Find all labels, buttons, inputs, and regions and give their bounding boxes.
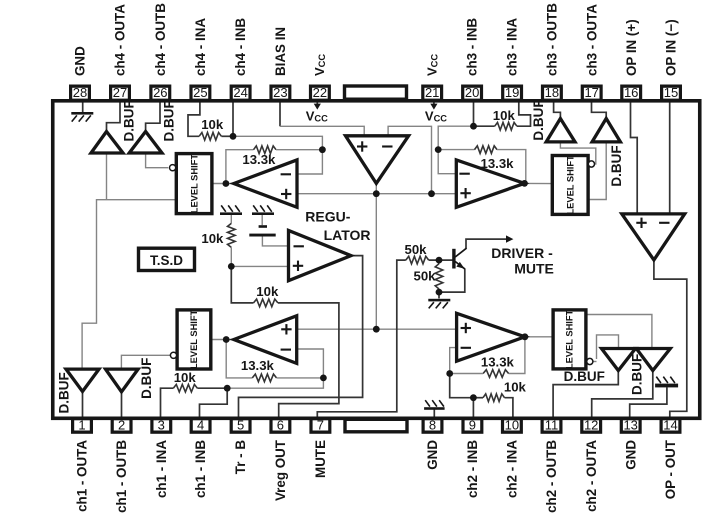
svg-text:OP - OUT: OP - OUT [663,439,678,499]
svg-text:3: 3 [158,417,165,432]
svg-text:7: 7 [317,417,324,432]
svg-text:17: 17 [584,85,598,100]
svg-text:26: 26 [153,85,167,100]
svg-text:ch4 - INB: ch4 - INB [233,18,248,76]
svg-text:GND: GND [425,440,440,470]
svg-text:10k: 10k [504,380,527,395]
svg-text:LATOR: LATOR [324,227,371,243]
svg-text:6: 6 [277,417,284,432]
svg-text:10: 10 [505,417,519,432]
svg-text:23: 23 [273,85,287,100]
svg-text:10k: 10k [493,108,516,123]
svg-text:24: 24 [233,85,247,100]
svg-text:9: 9 [469,417,476,432]
svg-text:D.BUF: D.BUF [122,100,137,141]
svg-text:D.BUF: D.BUF [609,145,624,186]
svg-text:10k: 10k [201,231,224,246]
svg-text:50k: 50k [404,242,427,257]
svg-text:MUTE: MUTE [514,260,554,276]
svg-text:4: 4 [197,417,204,432]
svg-text:13.3k: 13.3k [242,152,276,167]
svg-text:REGU-: REGU- [305,209,350,225]
svg-text:D.BUF: D.BUF [57,372,72,413]
svg-text:ch4 - OUTA: ch4 - OUTA [113,4,128,76]
svg-text:5: 5 [237,417,244,432]
svg-text:LEVEL SHIFT: LEVEL SHIFT [565,155,575,215]
svg-text:D.BUF: D.BUF [630,354,645,395]
svg-text:T.S.D: T.S.D [150,253,183,268]
svg-text:21: 21 [425,85,439,100]
svg-text:13.3k: 13.3k [480,156,514,171]
svg-text:19: 19 [505,85,519,100]
svg-text:D.BUF: D.BUF [531,99,546,140]
svg-text:10k: 10k [201,117,224,132]
svg-text:15: 15 [664,85,678,100]
svg-text:13: 13 [623,417,637,432]
svg-text:25: 25 [193,85,207,100]
svg-text:LEVEL SHIFT: LEVEL SHIFT [189,154,199,214]
svg-text:20: 20 [465,85,479,100]
svg-text:2: 2 [118,417,125,432]
svg-text:1: 1 [78,417,85,432]
svg-text:GND: GND [73,46,88,76]
svg-text:ch3 - INA: ch3 - INA [505,18,520,76]
svg-text:10k: 10k [174,370,197,385]
svg-text:DRIVER -: DRIVER - [491,245,553,261]
svg-text:LEVEL SHIFT: LEVEL SHIFT [565,309,575,369]
svg-text:16: 16 [624,85,638,100]
svg-text:12: 12 [584,417,598,432]
svg-text:ch4 - INA: ch4 - INA [193,18,208,76]
svg-text:14: 14 [663,417,677,432]
svg-text:ch1 - OUTB: ch1 - OUTB [114,440,129,513]
svg-text:13.3k: 13.3k [241,358,275,373]
svg-text:D.BUF: D.BUF [162,100,177,141]
svg-text:ch2 - OUTA: ch2 - OUTA [584,440,599,512]
svg-text:18: 18 [545,85,559,100]
svg-text:ch3 - INB: ch3 - INB [465,18,480,76]
svg-text:50k: 50k [413,268,436,283]
svg-text:LEVEL SHIFT: LEVEL SHIFT [189,309,199,369]
svg-text:11: 11 [545,417,559,432]
svg-text:28: 28 [73,85,87,100]
svg-text:ch1 - INA: ch1 - INA [154,440,169,498]
svg-text:OP IN (−): OP IN (−) [664,19,679,76]
svg-text:ch3 - OUTB: ch3 - OUTB [545,3,560,76]
svg-text:ch1 - INB: ch1 - INB [193,440,208,498]
svg-text:GND: GND [623,440,638,470]
svg-text:ch2 - INA: ch2 - INA [505,440,520,498]
svg-text:MUTE: MUTE [313,440,328,478]
svg-text:ch4 - OUTB: ch4 - OUTB [153,3,168,76]
svg-text:D.BUF: D.BUF [564,369,605,384]
svg-text:10k: 10k [256,284,279,299]
svg-text:Vreg OUT: Vreg OUT [273,439,288,501]
svg-text:OP IN (+): OP IN (+) [624,19,639,76]
svg-text:Tr - B: Tr - B [233,440,248,475]
svg-text:22: 22 [313,85,327,100]
svg-text:BIAS IN: BIAS IN [273,27,288,76]
svg-text:ch3 - OUTA: ch3 - OUTA [584,4,599,76]
svg-text:D.BUF: D.BUF [139,358,154,399]
svg-text:ch2 - INB: ch2 - INB [465,440,480,498]
svg-text:27: 27 [113,85,127,100]
svg-text:ch1 - OUTA: ch1 - OUTA [75,440,90,512]
svg-text:ch2 - OUTB: ch2 - OUTB [544,440,559,513]
svg-text:13.3k: 13.3k [481,354,515,369]
svg-text:8: 8 [429,417,436,432]
